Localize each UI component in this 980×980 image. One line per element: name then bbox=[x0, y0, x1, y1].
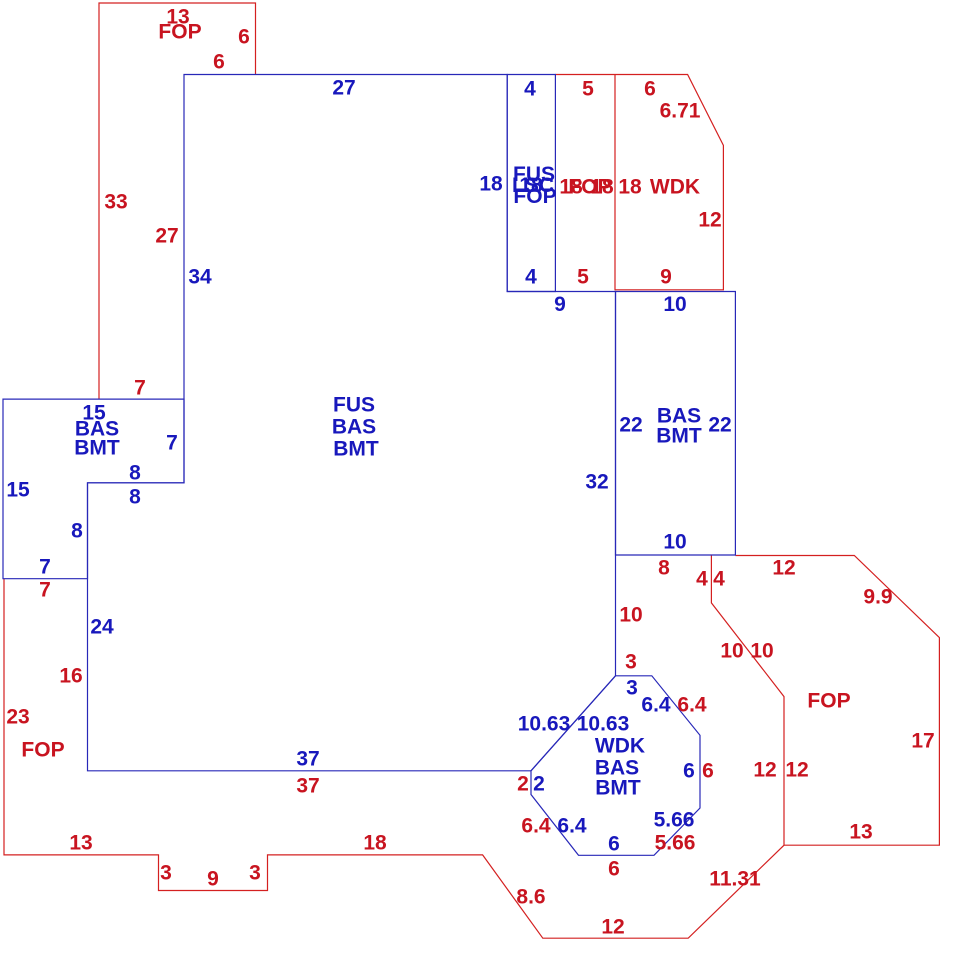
svg-text:3: 3 bbox=[625, 651, 637, 674]
svg-text:10: 10 bbox=[720, 640, 743, 663]
svg-text:10: 10 bbox=[619, 604, 642, 627]
svg-text:6.4: 6.4 bbox=[677, 694, 707, 717]
svg-text:8: 8 bbox=[658, 557, 670, 580]
svg-text:2: 2 bbox=[517, 773, 529, 796]
svg-text:BMT: BMT bbox=[656, 425, 702, 448]
svg-text:4: 4 bbox=[696, 568, 708, 591]
svg-text:18: 18 bbox=[479, 173, 503, 196]
svg-text:37: 37 bbox=[296, 775, 319, 798]
svg-text:10: 10 bbox=[663, 531, 686, 554]
polygon FOP strip and WDK deck top outline bbox=[555, 75, 723, 290]
svg-text:WDK: WDK bbox=[595, 735, 645, 758]
svg-text:8: 8 bbox=[129, 486, 141, 509]
svg-text:6: 6 bbox=[608, 833, 620, 856]
svg-text:3: 3 bbox=[160, 862, 172, 885]
svg-text:12: 12 bbox=[772, 557, 795, 580]
svg-text:5.66: 5.66 bbox=[654, 809, 695, 832]
svg-text:9.9: 9.9 bbox=[863, 586, 892, 609]
svg-text:6.4: 6.4 bbox=[521, 815, 551, 838]
svg-text:FOP: FOP bbox=[158, 21, 201, 44]
svg-text:5: 5 bbox=[577, 266, 589, 289]
svg-text:6.71: 6.71 bbox=[660, 100, 701, 123]
svg-text:4: 4 bbox=[524, 78, 536, 101]
svg-text:10.63: 10.63 bbox=[518, 713, 571, 736]
polygon FOP bottom wrap-around outline bbox=[4, 556, 784, 939]
svg-text:FOP: FOP bbox=[21, 739, 64, 762]
polygon main FUS BAS BMT outline bbox=[88, 75, 616, 771]
svg-text:6: 6 bbox=[608, 858, 620, 881]
svg-text:32: 32 bbox=[585, 471, 608, 494]
svg-text:12: 12 bbox=[785, 759, 808, 782]
svg-text:12: 12 bbox=[753, 759, 776, 782]
svg-text:4: 4 bbox=[525, 266, 537, 289]
svg-text:6: 6 bbox=[702, 760, 714, 783]
svg-text:6: 6 bbox=[213, 51, 225, 74]
svg-text:BMT: BMT bbox=[333, 438, 379, 461]
polygon BAS BMT right rectangle outline bbox=[616, 292, 736, 556]
svg-text:10.63: 10.63 bbox=[577, 713, 630, 736]
svg-text:17: 17 bbox=[911, 730, 934, 753]
svg-text:9: 9 bbox=[660, 266, 672, 289]
svg-text:BMT: BMT bbox=[74, 437, 120, 460]
svg-text:7: 7 bbox=[134, 377, 146, 400]
svg-text:2: 2 bbox=[533, 773, 545, 796]
svg-text:12: 12 bbox=[698, 209, 721, 232]
svg-text:10: 10 bbox=[663, 293, 686, 316]
svg-text:6: 6 bbox=[644, 78, 656, 101]
svg-text:FUS: FUS bbox=[333, 394, 375, 417]
svg-text:5.66: 5.66 bbox=[655, 832, 696, 855]
svg-text:12: 12 bbox=[601, 916, 624, 939]
svg-text:11.31: 11.31 bbox=[709, 868, 761, 891]
svg-text:9: 9 bbox=[207, 868, 219, 891]
svg-text:3: 3 bbox=[626, 677, 638, 700]
svg-text:10: 10 bbox=[750, 640, 773, 663]
svg-text:8.6: 8.6 bbox=[516, 886, 545, 909]
svg-text:27: 27 bbox=[155, 225, 178, 248]
svg-text:34: 34 bbox=[188, 266, 212, 289]
svg-text:27: 27 bbox=[332, 77, 355, 100]
svg-text:5: 5 bbox=[582, 78, 594, 101]
svg-text:FOP: FOP bbox=[807, 690, 850, 713]
svg-text:23: 23 bbox=[6, 706, 29, 729]
svg-text:7: 7 bbox=[39, 579, 51, 602]
svg-text:18: 18 bbox=[618, 176, 642, 199]
svg-text:18: 18 bbox=[363, 832, 387, 855]
svg-text:24: 24 bbox=[90, 616, 114, 639]
polygon FOP right outline bbox=[735, 556, 939, 846]
svg-text:22: 22 bbox=[619, 414, 642, 437]
svg-text:13: 13 bbox=[69, 832, 92, 855]
svg-text:18: 18 bbox=[590, 176, 614, 199]
svg-text:6.4: 6.4 bbox=[641, 694, 671, 717]
svg-text:15: 15 bbox=[6, 479, 30, 502]
svg-text:6: 6 bbox=[238, 26, 250, 49]
polygon WDK BAS BMT octagon outline bbox=[531, 676, 700, 856]
polygon FUS LSC FOP rectangle outline bbox=[507, 75, 555, 292]
svg-text:9: 9 bbox=[554, 293, 566, 316]
svg-text:6: 6 bbox=[683, 760, 695, 783]
svg-text:WDK: WDK bbox=[650, 176, 700, 199]
svg-text:13: 13 bbox=[849, 821, 872, 844]
svg-text:22: 22 bbox=[708, 414, 731, 437]
svg-text:8: 8 bbox=[129, 462, 141, 485]
svg-text:FOP: FOP bbox=[513, 185, 556, 208]
svg-text:BAS: BAS bbox=[332, 416, 376, 439]
svg-text:7: 7 bbox=[166, 432, 178, 455]
svg-text:7: 7 bbox=[39, 556, 51, 579]
svg-text:16: 16 bbox=[59, 665, 82, 688]
svg-text:37: 37 bbox=[296, 748, 319, 771]
svg-text:BMT: BMT bbox=[595, 777, 641, 800]
svg-text:3: 3 bbox=[249, 862, 261, 885]
polygon FOP porch top-left outline bbox=[99, 3, 256, 399]
svg-text:8: 8 bbox=[71, 520, 83, 543]
svg-text:4: 4 bbox=[713, 568, 725, 591]
svg-text:33: 33 bbox=[104, 191, 127, 214]
svg-text:6.4: 6.4 bbox=[557, 815, 587, 838]
polygon BAS BMT left L-shape outline bbox=[3, 399, 184, 579]
